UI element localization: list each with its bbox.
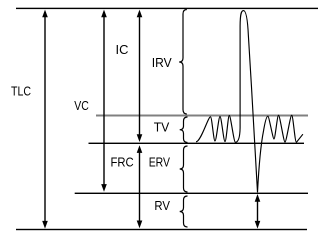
brace RV bbox=[180, 196, 188, 227]
brace TV bbox=[180, 117, 188, 143]
line (maximal expiration level) bbox=[75, 193, 308, 194]
top line (maximal inspiration level) bbox=[16, 8, 318, 9]
svg-text:TLC: TLC bbox=[11, 84, 31, 99]
svg-text:FRC: FRC bbox=[111, 154, 134, 169]
brace ERV bbox=[180, 146, 188, 192]
svg-text:IRV: IRV bbox=[152, 55, 172, 70]
svg-text:RV: RV bbox=[154, 198, 170, 213]
grey line (end-tidal-inspiration level) bbox=[96, 115, 308, 117]
arrow FRC (double-headed) bbox=[137, 145, 143, 228]
arrow RV measurement (double-headed) bbox=[255, 194, 261, 229]
arrow IC (double-headed) bbox=[137, 10, 143, 142]
line (end-expiratory / FRC level) bbox=[89, 143, 305, 144]
arrow VC (double-headed) bbox=[101, 10, 107, 192]
svg-text:ERV: ERV bbox=[149, 154, 171, 169]
svg-text:VC: VC bbox=[74, 98, 89, 113]
bottom line (zero volume) bbox=[16, 229, 307, 230]
arrow TLC (double-headed) bbox=[42, 10, 48, 229]
spirogram trace bbox=[196, 11, 303, 193]
svg-text:IC: IC bbox=[116, 42, 129, 57]
brace IRV bbox=[179, 10, 187, 115]
svg-text:TV: TV bbox=[154, 119, 170, 134]
